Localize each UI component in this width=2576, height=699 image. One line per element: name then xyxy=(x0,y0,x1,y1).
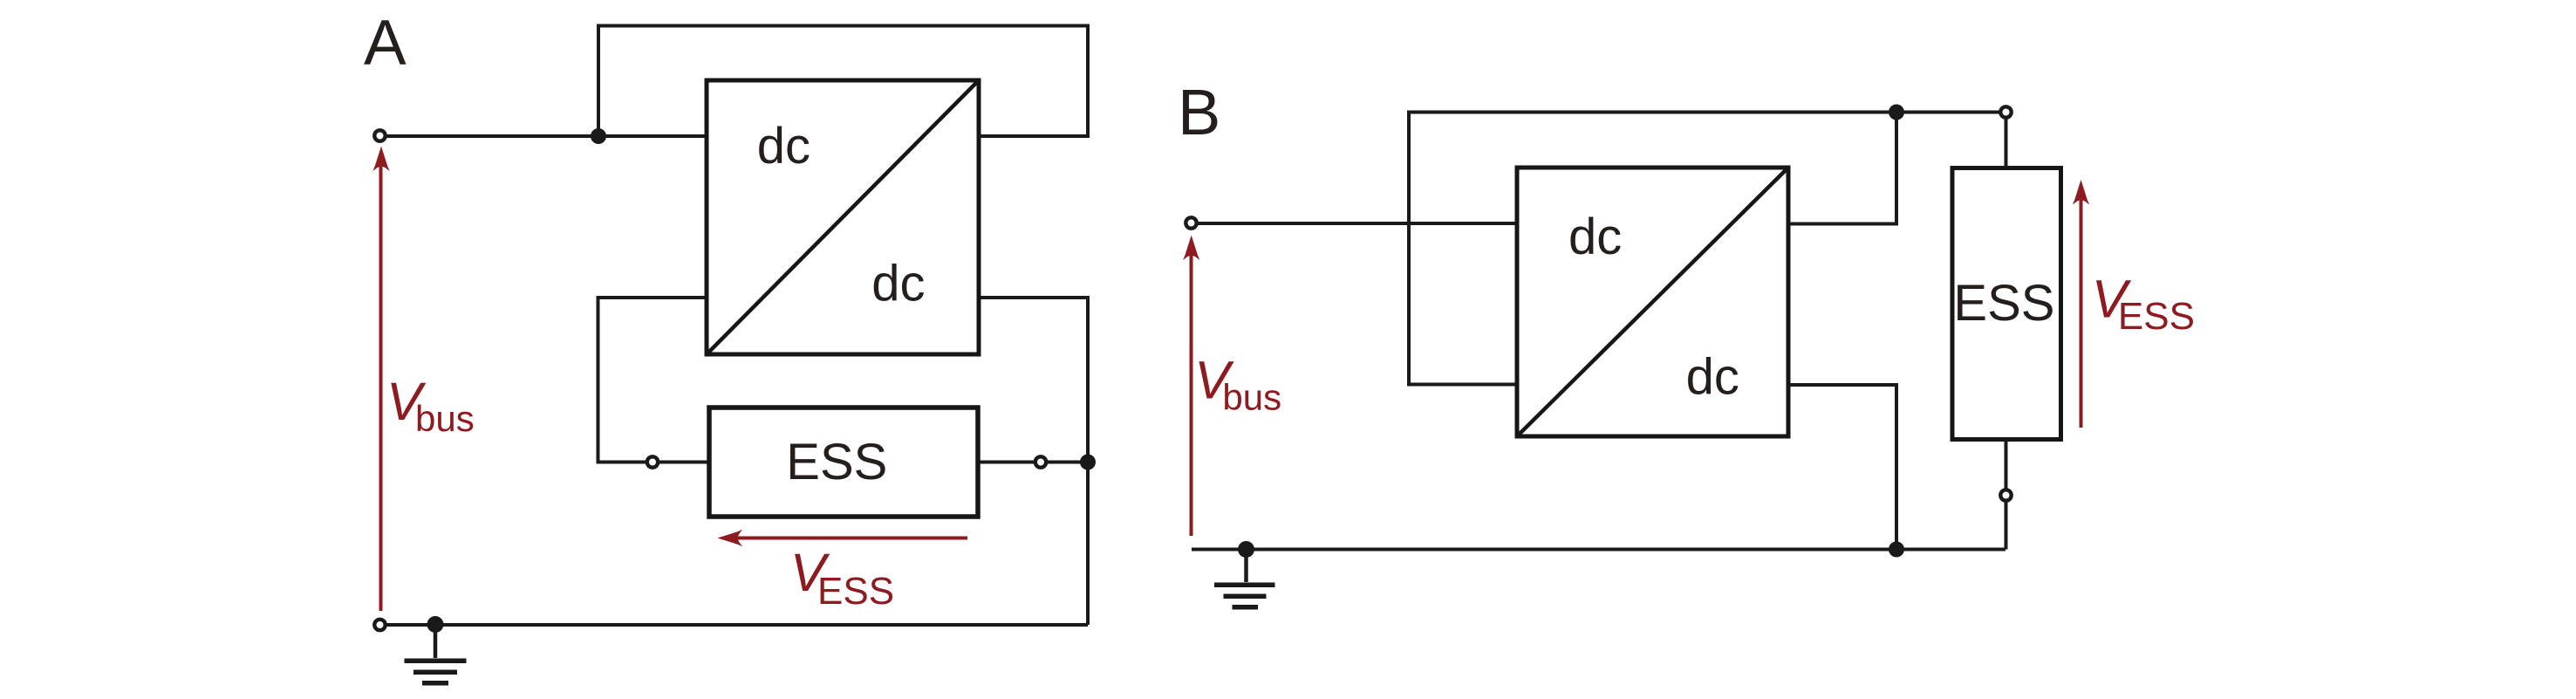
svg-text:ESS: ESS xyxy=(786,434,887,490)
terminal ESS top (B) xyxy=(2000,106,2011,117)
wire lower-right (B) xyxy=(1788,385,1896,550)
wire bottom bus (A) xyxy=(380,623,1089,627)
svg-text:ESS: ESS xyxy=(1953,275,2054,332)
V_bus arrow (B) xyxy=(1183,236,1199,537)
ESS box (A) xyxy=(709,408,978,517)
svg-text:A: A xyxy=(364,8,407,79)
label V_ESS (B) xyxy=(2092,269,2195,337)
wire ESS right (A) xyxy=(978,461,1088,464)
terminal bus minus (A) xyxy=(374,620,385,630)
junction bus node (A) xyxy=(591,128,606,144)
ground (B) xyxy=(1214,550,1275,610)
svg-text:ESS: ESS xyxy=(2118,295,2195,338)
svg-text:dc: dc xyxy=(1686,349,1739,406)
V_ESS arrow (B) xyxy=(2073,180,2089,428)
V_bus arrow (A) xyxy=(372,147,389,612)
ESS box (B) xyxy=(1952,168,2061,440)
label V_bus (A) xyxy=(386,372,475,439)
ground (A) xyxy=(405,625,467,686)
junction ground node (B) xyxy=(1238,541,1254,558)
terminal ESS bottom (B) xyxy=(2000,490,2011,500)
label V_ESS (A) xyxy=(790,543,894,613)
terminal ESS right (A) xyxy=(1035,456,1046,467)
svg-text:dc: dc xyxy=(871,256,925,312)
wire top loop (B) xyxy=(1409,113,2005,385)
svg-text:bus: bus xyxy=(415,398,475,439)
V_ESS arrow (A) xyxy=(718,530,968,546)
dc-dc converter U1 (A) xyxy=(707,80,979,354)
wire ESS bottom stub (B) xyxy=(2005,439,2008,550)
svg-text:ESS: ESS xyxy=(817,570,894,613)
wire ESS top stub (B) xyxy=(2005,113,2008,169)
svg-text:dc: dc xyxy=(1568,209,1622,265)
junction ESS right node (A) xyxy=(1080,455,1096,470)
wire bus to converter (B) xyxy=(1192,222,1518,225)
svg-text:B: B xyxy=(1178,76,1220,148)
wire bus top (A) xyxy=(380,134,707,138)
junction ground node (A) xyxy=(427,616,444,633)
dc-dc converter U2 (B) xyxy=(1517,168,1788,436)
svg-text:bus: bus xyxy=(1222,376,1281,417)
label V_bus (B) xyxy=(1194,351,1281,418)
junction bottom node (B) xyxy=(1889,542,1904,558)
wire lower-left loop (A) xyxy=(598,298,710,463)
junction top node (B) xyxy=(1889,105,1904,120)
terminal ESS left (A) xyxy=(647,456,658,467)
wire lower-right (A) xyxy=(979,298,1088,625)
terminal bus plus (B) xyxy=(1186,217,1196,228)
wire bottom bus (B) xyxy=(1192,548,2005,552)
wire top loop (A) xyxy=(598,26,1088,137)
wire upper-right pin (B) xyxy=(1788,113,1896,224)
terminal bus plus (A) xyxy=(374,130,385,140)
svg-text:dc: dc xyxy=(757,118,810,175)
